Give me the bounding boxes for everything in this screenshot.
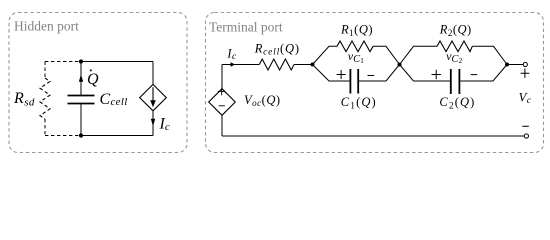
plus C1 xyxy=(337,70,346,79)
capacitor Ccell top plate xyxy=(68,95,95,97)
minus terminal sign xyxy=(522,125,529,127)
section 2 lower branch right xyxy=(459,65,507,82)
wire dashed stub bottom of Rsd xyxy=(44,119,46,136)
wire below current source xyxy=(152,111,154,136)
wire dashed stub top of Rsd xyxy=(44,62,46,79)
resistor R1 zigzag xyxy=(337,41,373,52)
wire Ccell lower xyxy=(80,104,82,136)
section 1 lower branch left xyxy=(313,65,351,82)
wire below Voc diamond xyxy=(221,115,223,136)
minus C2 xyxy=(471,74,478,76)
terminal - circle xyxy=(524,134,528,138)
capacitor Ccell bottom plate xyxy=(68,103,95,105)
minus C1 xyxy=(368,75,375,77)
section 2 upper branch left xyxy=(400,46,438,64)
svg-text:C2(Q): C2(Q) xyxy=(439,95,475,111)
wire node C to + terminal xyxy=(507,64,523,66)
section 1 lower branch right xyxy=(358,65,399,82)
wire Ccell upper xyxy=(80,62,82,96)
resistor R2 zigzag xyxy=(437,41,472,52)
wire top solid left circuit xyxy=(81,61,153,63)
node bottom of Ccell xyxy=(79,133,83,137)
svg-text:Hidden port: Hidden port xyxy=(14,19,79,34)
capacitor C1 left plate xyxy=(349,69,351,94)
svg-text:R1(Q): R1(Q) xyxy=(340,23,373,38)
svg-text:C1(Q): C1(Q) xyxy=(341,95,377,111)
node B xyxy=(398,63,402,67)
wire bottom dashed left xyxy=(45,135,81,137)
capacitor C1 right plate xyxy=(357,69,359,94)
current source diamond xyxy=(140,84,167,110)
section 2 lower branch left xyxy=(400,65,451,82)
svg-text:Q: Q xyxy=(87,71,99,88)
plus in diamond xyxy=(218,88,226,96)
hidden port box xyxy=(9,13,187,153)
bottom rail xyxy=(222,135,524,137)
node top of Ccell xyxy=(79,59,83,63)
resistor Rsd zigzag dashed xyxy=(40,78,50,119)
wire Rcell to node A xyxy=(294,64,312,66)
plus C2 xyxy=(432,70,441,79)
svg-text:Terminal port: Terminal port xyxy=(209,20,283,35)
wire to current source top xyxy=(152,62,154,85)
wire R2 to node C xyxy=(472,46,507,64)
terminal port box xyxy=(206,13,544,153)
current arrow Ic left xyxy=(151,119,155,127)
svg-text:Voc(Q): Voc(Q) xyxy=(244,93,281,108)
capacitor C2 right plate xyxy=(458,69,460,94)
capacitor C2 left plate xyxy=(450,69,452,94)
current arrow Qdot xyxy=(79,74,83,82)
terminal + circle xyxy=(523,62,527,66)
Voc source: wire from diamond top to rail xyxy=(221,65,223,89)
current source internal arrow xyxy=(152,87,154,101)
section 1 upper branch: diagonal + wire xyxy=(313,46,338,64)
resistor Rcell zigzag xyxy=(259,59,294,70)
svg-text:R2(Q): R2(Q) xyxy=(439,23,472,38)
node C xyxy=(505,63,509,67)
node A xyxy=(311,63,315,67)
plus terminal sign xyxy=(521,69,530,78)
top rail from Voc corner to Rcell xyxy=(222,64,259,66)
wire top dashed left xyxy=(45,61,81,63)
wire R1 to node B xyxy=(373,46,400,64)
wire bottom solid left circuit xyxy=(81,135,153,137)
Voc diamond xyxy=(209,89,236,116)
current arrow Ic right xyxy=(231,62,236,66)
minus in diamond xyxy=(219,105,225,107)
